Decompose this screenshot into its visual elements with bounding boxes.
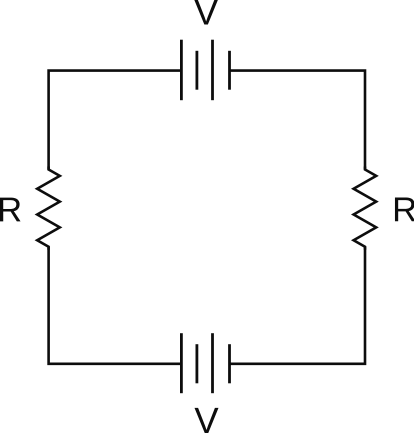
wire top rail right segment + right rail upper (top-right corner) [230, 71, 366, 170]
value label R of left resistor [0, 198, 21, 222]
battery V (bottom) short plate 1 [195, 344, 198, 383]
battery V (bottom) short plate 2 [228, 344, 231, 383]
battery V (bottom) long plate 2 [211, 333, 214, 393]
value label V of bottom battery [195, 408, 219, 433]
value label V of top battery [194, 0, 218, 25]
battery V (top) long plate 1 [180, 40, 183, 100]
wire top rail left segment + left rail upper (top-left corner) [49, 71, 182, 170]
battery V (top) short plate 1 [195, 51, 198, 90]
wire right rail lower + bottom rail right segment (bottom-right corner) [230, 247, 366, 364]
value label R of right resistor [395, 198, 414, 222]
battery V (bottom) long plate 1 [180, 333, 183, 393]
battery V (top) long plate 2 [211, 40, 214, 100]
battery V (top) short plate 2 [228, 51, 231, 90]
wire left rail lower + bottom rail left segment (bottom-left corner) [49, 247, 182, 364]
resistor R (left) zigzag element [37, 167, 60, 250]
resistor R (right) zigzag element [354, 167, 377, 250]
